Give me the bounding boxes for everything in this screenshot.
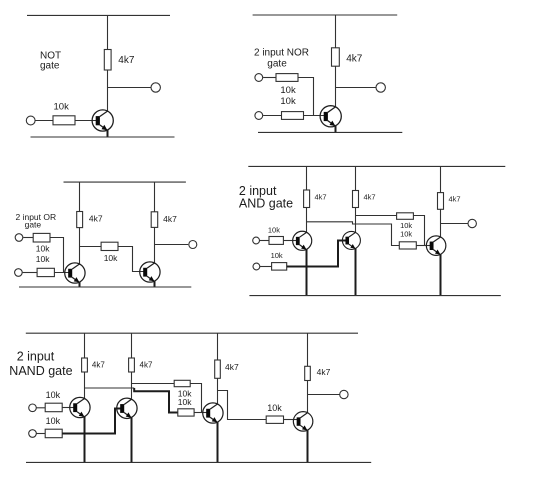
svg-text:gate: gate xyxy=(25,220,42,230)
svg-text:2 input NOR: 2 input NOR xyxy=(254,48,309,59)
svg-text:4k7: 4k7 xyxy=(118,55,135,66)
svg-text:10k: 10k xyxy=(104,253,118,263)
svg-text:4k7: 4k7 xyxy=(140,360,153,369)
svg-text:4k7: 4k7 xyxy=(317,367,331,377)
svg-text:4k7: 4k7 xyxy=(346,54,363,65)
svg-text:2 input: 2 input xyxy=(17,350,55,364)
svg-text:AND gate: AND gate xyxy=(239,196,293,210)
svg-text:10k: 10k xyxy=(36,244,50,254)
svg-text:10k: 10k xyxy=(46,416,61,426)
svg-text:4k7: 4k7 xyxy=(89,214,103,224)
svg-text:gate: gate xyxy=(40,61,60,72)
svg-text:NAND gate: NAND gate xyxy=(9,364,72,378)
svg-text:10k: 10k xyxy=(178,397,192,407)
svg-text:4k7: 4k7 xyxy=(315,193,327,202)
svg-text:4k7: 4k7 xyxy=(225,362,239,372)
svg-text:10k: 10k xyxy=(271,251,283,260)
svg-text:10k: 10k xyxy=(400,230,412,239)
svg-text:4k7: 4k7 xyxy=(92,360,105,369)
svg-text:10k: 10k xyxy=(46,390,61,400)
svg-text:10k: 10k xyxy=(267,403,282,413)
svg-text:10k: 10k xyxy=(36,254,50,264)
svg-text:4k7: 4k7 xyxy=(163,214,177,224)
svg-text:gate: gate xyxy=(267,59,287,70)
svg-text:4k7: 4k7 xyxy=(449,195,461,204)
svg-text:4k7: 4k7 xyxy=(364,193,376,202)
svg-text:10k: 10k xyxy=(280,96,296,107)
svg-text:10k: 10k xyxy=(54,102,70,113)
svg-text:10k: 10k xyxy=(268,225,280,234)
svg-text:10k: 10k xyxy=(280,85,296,96)
